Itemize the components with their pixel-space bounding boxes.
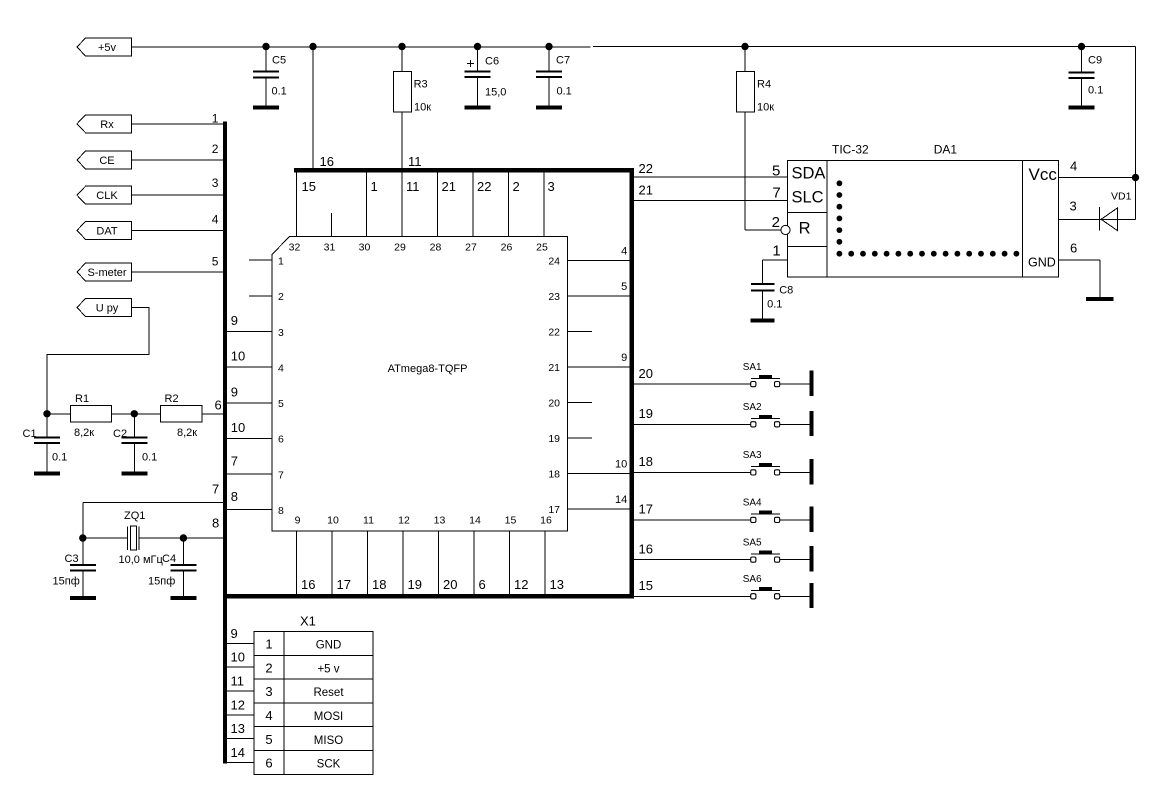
svg-text:22: 22 [639,161,653,176]
svg-text:16: 16 [320,154,334,169]
svg-text:15пф: 15пф [53,576,80,588]
svg-text:SA3: SA3 [743,450,762,461]
svg-text:10: 10 [231,420,245,435]
svg-text:3: 3 [548,179,555,194]
svg-text:4: 4 [278,362,284,374]
svg-text:17: 17 [337,577,351,592]
svg-text:GND: GND [1028,256,1056,270]
svg-text:9: 9 [295,515,301,527]
svg-text:12: 12 [398,515,410,527]
svg-text:15,0: 15,0 [485,87,506,99]
svg-text:21: 21 [639,183,653,198]
svg-text:+5 v: +5 v [317,663,339,675]
svg-text:13: 13 [231,721,245,736]
svg-text:3: 3 [265,684,272,699]
svg-text:5: 5 [772,162,780,179]
svg-text:C7: C7 [556,55,570,67]
svg-text:C1: C1 [23,428,37,440]
svg-text:16: 16 [301,577,315,592]
svg-text:2: 2 [265,660,272,675]
svg-text:4: 4 [1070,159,1077,174]
svg-text:2: 2 [212,142,219,156]
svg-text:30: 30 [359,242,371,254]
svg-text:S-meter: S-meter [87,267,126,279]
svg-text:23: 23 [548,291,560,303]
svg-text:12: 12 [231,697,245,712]
svg-text:9: 9 [231,626,238,641]
svg-text:R4: R4 [757,79,771,91]
svg-text:R2: R2 [165,393,179,405]
svg-text:6: 6 [479,577,486,592]
svg-text:12: 12 [514,577,528,592]
svg-text:6: 6 [265,756,272,771]
svg-text:19: 19 [639,406,653,421]
svg-text:4: 4 [621,246,627,258]
svg-text:9: 9 [231,313,238,328]
svg-text:R: R [799,219,811,237]
svg-text:9: 9 [231,384,238,399]
svg-text:21: 21 [548,362,560,374]
svg-text:18: 18 [548,468,560,480]
svg-text:18: 18 [639,454,653,469]
svg-text:14: 14 [231,745,245,760]
svg-text:1: 1 [278,256,284,268]
svg-text:0.1: 0.1 [767,299,782,311]
svg-text:C6: C6 [485,55,499,67]
svg-text:3: 3 [212,176,219,190]
svg-text:27: 27 [465,242,477,254]
svg-text:10: 10 [231,650,245,665]
svg-text:DAT: DAT [96,225,117,237]
svg-text:19: 19 [548,433,560,445]
svg-text:3: 3 [1070,199,1077,214]
svg-text:15: 15 [639,578,653,593]
svg-text:10к: 10к [757,101,774,113]
svg-text:21: 21 [442,179,456,194]
svg-text:6: 6 [278,434,284,446]
svg-text:3: 3 [278,327,284,339]
svg-text:0.1: 0.1 [272,86,287,98]
svg-text:SA2: SA2 [743,402,762,413]
svg-text:0.1: 0.1 [1088,85,1103,97]
svg-text:ATmega8-TQFP: ATmega8-TQFP [388,363,468,375]
svg-text:4: 4 [212,213,219,227]
svg-text:2: 2 [772,214,780,231]
svg-text:4: 4 [265,708,272,723]
svg-text:5: 5 [265,732,272,747]
svg-text:20: 20 [548,397,560,409]
svg-text:22: 22 [477,179,491,194]
svg-text:SA6: SA6 [743,574,762,585]
svg-text:29: 29 [394,242,406,254]
svg-text:1: 1 [371,179,378,194]
svg-text:15: 15 [302,179,316,194]
svg-text:1: 1 [265,637,272,652]
svg-text:SA5: SA5 [743,537,762,548]
svg-text:Rx: Rx [100,119,114,131]
svg-text:1: 1 [772,242,780,259]
svg-text:19: 19 [408,577,422,592]
svg-text:SDA: SDA [792,165,826,183]
svg-text:8: 8 [212,516,219,531]
svg-text:5: 5 [621,281,627,293]
svg-text:14: 14 [615,494,627,506]
svg-text:SA1: SA1 [743,362,762,373]
svg-text:DA1: DA1 [934,143,958,157]
svg-text:10: 10 [615,459,627,471]
svg-text:7: 7 [278,469,284,481]
svg-text:20: 20 [639,366,653,381]
svg-text:10,0 мГц: 10,0 мГц [119,554,164,566]
svg-text:11: 11 [408,154,422,169]
svg-text:TIC-32: TIC-32 [832,143,869,157]
svg-text:11: 11 [231,674,245,689]
svg-text:8: 8 [231,489,238,504]
svg-text:1: 1 [212,112,219,126]
svg-text:15: 15 [505,515,517,527]
svg-text:MISO: MISO [314,735,343,747]
svg-text:SLC: SLC [792,188,824,206]
svg-text:CE: CE [99,155,114,167]
svg-text:8,2к: 8,2к [74,427,94,439]
svg-text:7: 7 [231,454,238,469]
svg-text:0.1: 0.1 [557,86,572,98]
svg-text:14: 14 [469,515,481,527]
svg-text:6: 6 [215,397,222,412]
svg-text:32: 32 [289,242,301,254]
svg-text:25: 25 [536,242,548,254]
svg-text:R1: R1 [75,393,89,405]
svg-text:31: 31 [324,242,336,254]
svg-text:11: 11 [406,179,420,194]
svg-text:20: 20 [443,577,457,592]
svg-text:GND: GND [316,640,342,652]
svg-text:C5: C5 [272,55,286,67]
svg-text:U ру: U ру [96,303,119,315]
svg-text:0.1: 0.1 [142,452,157,464]
svg-text:C9: C9 [1088,55,1102,67]
svg-text:16: 16 [540,515,552,527]
svg-text:11: 11 [363,515,374,527]
svg-text:8: 8 [278,505,284,517]
svg-text:18: 18 [372,577,386,592]
svg-text:R3: R3 [414,79,428,91]
svg-text:C8: C8 [779,285,793,297]
svg-text:C2: C2 [113,428,127,440]
svg-text:2: 2 [513,179,520,194]
svg-text:+5v: +5v [98,42,117,54]
svg-text:C3: C3 [65,553,79,565]
svg-text:5: 5 [278,398,284,410]
svg-text:MOSI: MOSI [314,711,343,723]
svg-text:5: 5 [212,254,219,268]
svg-text:8,2к: 8,2к [177,427,197,439]
svg-text:Vcc: Vcc [1029,165,1058,184]
svg-text:SA4: SA4 [743,498,762,509]
svg-text:7: 7 [772,184,780,201]
svg-text:24: 24 [548,255,560,267]
svg-text:0.1: 0.1 [52,452,67,464]
svg-text:13: 13 [550,577,564,592]
svg-text:9: 9 [621,352,627,364]
svg-text:2: 2 [278,291,284,303]
svg-text:22: 22 [548,326,560,338]
svg-text:28: 28 [430,242,442,254]
svg-text:Reset: Reset [313,687,344,699]
svg-text:17: 17 [639,502,653,517]
svg-text:7: 7 [212,482,219,497]
svg-text:VD1: VD1 [1111,191,1132,203]
svg-text:15пф: 15пф [148,576,175,588]
svg-text:10: 10 [231,349,245,364]
svg-text:C4: C4 [162,553,176,565]
svg-text:6: 6 [1070,241,1077,256]
svg-text:13: 13 [434,515,446,527]
svg-text:CLK: CLK [96,190,118,202]
svg-text:10к: 10к [414,101,431,113]
svg-text:16: 16 [639,541,653,556]
svg-text:26: 26 [501,242,513,254]
svg-text:SCK: SCK [317,759,341,771]
svg-text:ZQ1: ZQ1 [124,510,145,522]
svg-text:10: 10 [327,515,339,527]
svg-text:X1: X1 [300,614,316,629]
